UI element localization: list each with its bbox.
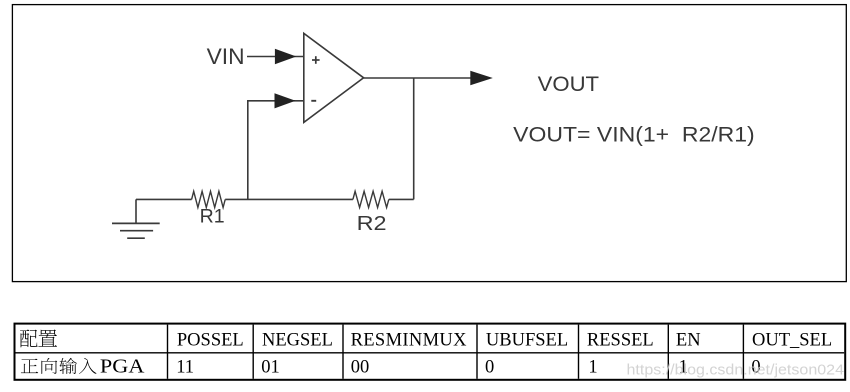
svg-text:EN: EN xyxy=(676,331,701,351)
resistor R1 xyxy=(192,191,226,207)
wire VIN to + input xyxy=(247,56,304,58)
table column line 6 xyxy=(667,325,669,379)
table cell text 入 xyxy=(79,358,97,374)
table column line 3 xyxy=(342,325,344,379)
svg-text:VOUT: VOUT xyxy=(538,73,600,96)
table cell text 输 xyxy=(59,358,77,374)
table row separator xyxy=(16,352,845,354)
table column line 2 xyxy=(252,325,254,379)
wire feedback node to - input xyxy=(248,101,304,200)
svg-text:VIN: VIN xyxy=(207,44,245,69)
table cell text 正 xyxy=(21,359,38,373)
table header text 配 xyxy=(20,329,38,347)
svg-text:PGA: PGA xyxy=(100,356,145,377)
svg-text:R2: R2 xyxy=(357,212,387,235)
svg-text:0: 0 xyxy=(485,357,494,377)
wire ground to R1 xyxy=(136,198,192,200)
table column line 1 xyxy=(167,325,169,379)
svg-text:OUT_SEL: OUT_SEL xyxy=(752,331,832,351)
resistor R2 xyxy=(353,191,389,207)
svg-text:RESMINMUX: RESMINMUX xyxy=(351,331,468,351)
wire ground stem xyxy=(135,199,137,223)
table header text 置 xyxy=(38,329,57,346)
svg-text:UBUFSEL: UBUFSEL xyxy=(486,331,568,351)
arrowhead on - input wire xyxy=(275,93,296,108)
ground xyxy=(112,223,160,238)
svg-text:11: 11 xyxy=(176,357,194,377)
table cell text 向 xyxy=(41,358,57,374)
wire op-amp output xyxy=(364,77,473,79)
table column line 4 xyxy=(476,325,478,379)
svg-text:01: 01 xyxy=(261,357,280,377)
svg-text:VOUT= VIN(1+ R2/R1): VOUT= VIN(1+ R2/R1) xyxy=(513,124,755,147)
table column line 5 xyxy=(578,325,580,379)
svg-text:1: 1 xyxy=(588,357,597,377)
wire output node down to R2 xyxy=(413,78,415,199)
svg-text:NEGSEL: NEGSEL xyxy=(262,331,333,351)
table outer border xyxy=(15,324,846,380)
arrowhead on output wire xyxy=(470,71,493,86)
op-amp + pin marking xyxy=(312,56,320,64)
wire R1 to R2 xyxy=(225,198,353,200)
svg-text:00: 00 xyxy=(351,357,370,377)
svg-text:https://blog.csdn.net/jetson02: https://blog.csdn.net/jetson024 xyxy=(627,363,845,379)
table column line 7 xyxy=(742,325,744,379)
svg-text:R1: R1 xyxy=(200,206,225,228)
svg-text:RESSEL: RESSEL xyxy=(587,331,654,351)
op-amp U1 xyxy=(304,33,364,122)
wire R2 to output drop xyxy=(389,198,414,200)
arrowhead on + input wire xyxy=(275,49,296,65)
op-amp - pin marking xyxy=(311,100,316,102)
svg-text:POSSEL: POSSEL xyxy=(177,331,244,351)
